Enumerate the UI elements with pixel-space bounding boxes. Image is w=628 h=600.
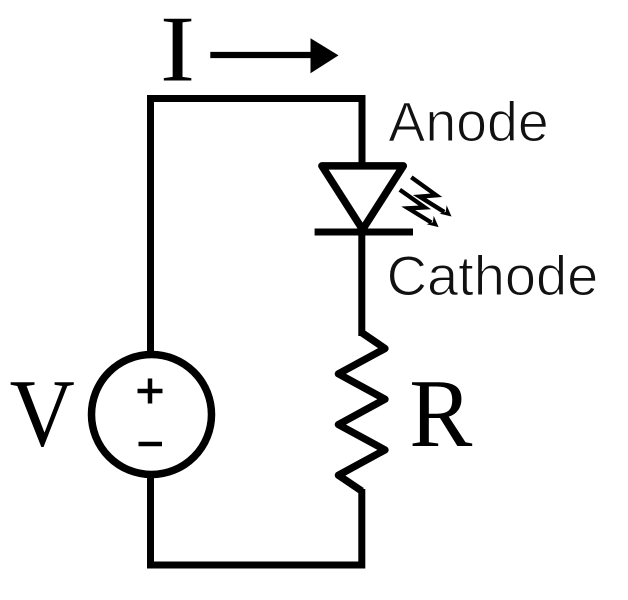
minus terminal: [139, 442, 163, 447]
plus terminal: [138, 379, 163, 404]
resistor R zigzag: [338, 333, 385, 491]
svg-text:R: R: [409, 359, 472, 468]
LED D1 anode triangle: [322, 166, 403, 230]
wire: left rail up, top rail, right drop to LED anode: [151, 99, 363, 356]
svg-text:Anode: Anode: [388, 91, 548, 153]
wire: resistor down, bottom rail, up to voltage source: [151, 474, 362, 565]
svg-text:I: I: [160, 0, 195, 101]
LED D1 cathode bar: [315, 229, 413, 236]
wire: LED cathode down to resistor: [358, 232, 365, 336]
svg-text:Cathode: Cathode: [387, 244, 599, 307]
voltage source V circle: [92, 355, 212, 475]
LED light emission arrow upper: [411, 177, 451, 216]
current direction arrow: [210, 38, 338, 73]
LED light emission arrow lower: [400, 190, 439, 227]
svg-text:V: V: [10, 361, 75, 467]
